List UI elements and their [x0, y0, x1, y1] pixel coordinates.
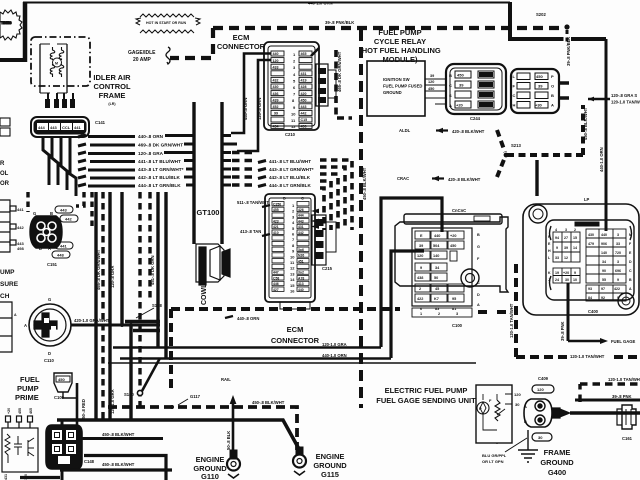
- svg-text:C100: C100: [452, 323, 463, 328]
- svg-text:441-.8 LT BLU/WHT: 441-.8 LT BLU/WHT: [138, 159, 181, 164]
- svg-text:3: 3: [456, 312, 458, 316]
- svg-text:+20: +20: [450, 234, 456, 238]
- short bus bars near bundle: [125, 320, 160, 323]
- IAC pin row: [45, 99, 75, 108]
- svg-text:426: 426: [298, 208, 304, 212]
- svg-text:S140: S140: [124, 392, 134, 397]
- svg-text:140: 140: [433, 254, 439, 258]
- svg-text:R: R: [0, 161, 5, 167]
- svg-text:FUEL GAGE SENDING UNIT: FUEL GAGE SENDING UNIT: [376, 396, 476, 405]
- svg-text:C141: C141: [95, 120, 106, 125]
- svg-text:450-.8 BLK/WHT: 450-.8 BLK/WHT: [252, 400, 285, 405]
- svg-text:C: C: [449, 83, 452, 88]
- svg-text:2: 2: [574, 228, 576, 232]
- svg-text:S202: S202: [536, 12, 546, 17]
- svg-text:3o2: 3o2: [298, 271, 304, 275]
- LP stub wire from relay area: [535, 160, 538, 196]
- dashed corners to C151: [28, 192, 92, 228]
- ECM2 right arrows: [311, 209, 319, 229]
- svg-text:J: J: [548, 278, 550, 282]
- svg-text:9: 9: [617, 278, 619, 282]
- svg-text:455: 455: [273, 208, 279, 212]
- svg-text:442: 442: [301, 112, 307, 116]
- svg-text:SURE: SURE: [0, 281, 19, 288]
- svg-text:C210: C210: [285, 132, 296, 137]
- svg-text:422: 422: [417, 297, 423, 301]
- svg-text:422: 422: [614, 287, 620, 291]
- svg-text:441: 441: [74, 125, 81, 130]
- plug arrow right of C409: [552, 408, 570, 418]
- svg-text:443: 443: [60, 208, 67, 213]
- svg-text:440-1.0 ORN: 440-1.0 ORN: [308, 1, 333, 6]
- svg-text:PRIME: PRIME: [15, 393, 39, 402]
- svg-text:RAIL: RAIL: [221, 377, 231, 382]
- svg-text:10: 10: [573, 278, 577, 282]
- svg-text:431: 431: [298, 225, 304, 229]
- svg-text:24: 24: [555, 278, 559, 282]
- svg-text:498: 498: [17, 246, 24, 251]
- svg-text:452: 452: [273, 105, 279, 109]
- svg-text:CONTROL: CONTROL: [93, 82, 130, 91]
- ECM1 feed wires: [231, 54, 271, 152]
- svg-text:439: 439: [273, 98, 279, 102]
- svg-text:16: 16: [290, 289, 295, 294]
- svg-text:CCL: CCL: [62, 125, 71, 130]
- svg-text:G: G: [477, 245, 480, 249]
- svg-text:FRAME: FRAME: [544, 448, 571, 457]
- svg-text:LP: LP: [584, 197, 590, 202]
- connector C148: [46, 425, 82, 469]
- svg-text:9: 9: [420, 266, 422, 270]
- svg-text:428: 428: [301, 85, 307, 89]
- relay conn2 right stubs: [559, 83, 569, 98]
- svg-text:2: 2: [419, 287, 421, 291]
- svg-text:M: M: [55, 62, 58, 66]
- ECM connector C210 (top): [264, 42, 336, 130]
- svg-text:450: 450: [301, 98, 307, 102]
- svg-text:39: 39: [538, 84, 543, 89]
- svg-text:455: 455: [18, 408, 22, 414]
- svg-text:450-.8 BLK/WHT: 450-.8 BLK/WHT: [102, 462, 135, 467]
- wire 440 main feed top: [0, 58, 25, 62]
- wire from C110: [71, 324, 160, 327]
- svg-text:GAGE/IDLE: GAGE/IDLE: [128, 50, 156, 56]
- svg-text:O: O: [551, 84, 554, 89]
- svg-text:FUEL GAGE: FUEL GAGE: [611, 339, 636, 344]
- wire label band rows: [78, 135, 86, 186]
- long dashed vertical 450 run: [359, 30, 363, 408]
- svg-text:C58: C58: [273, 276, 279, 280]
- svg-text:440-1.0 ORN: 440-1.0 ORN: [322, 353, 347, 358]
- svg-text:15: 15: [290, 283, 295, 288]
- svg-text:442-.8 LT BLU/BLK: 442-.8 LT BLU/BLK: [269, 175, 311, 180]
- svg-text:C400: C400: [588, 309, 599, 314]
- C151 wire pills: [52, 206, 78, 258]
- svg-text:C15: C15: [301, 118, 308, 122]
- svg-text:440-.8 ORN: 440-.8 ORN: [243, 98, 248, 120]
- relay connector 1 C244: [446, 64, 506, 114]
- svg-text:469-.8 DK GRN/WHT: 469-.8 DK GRN/WHT: [138, 143, 183, 148]
- svg-text:CONNECTOR: CONNECTOR: [271, 336, 320, 345]
- svg-text:CRAC: CRAC: [397, 176, 409, 181]
- svg-text:CnCnC: CnCnC: [452, 208, 466, 213]
- partial text left edge (cut labels): [0, 161, 10, 187]
- svg-text:440-.8 ORN: 440-.8 ORN: [138, 134, 164, 139]
- svg-text:P: P: [551, 74, 554, 79]
- wire prime down: [76, 383, 79, 425]
- svg-text:12: 12: [290, 266, 295, 271]
- svg-text:OL: OL: [0, 171, 9, 177]
- svg-text:(HOT FUEL HANDLING: (HOT FUEL HANDLING: [359, 46, 441, 55]
- svg-text:451-.8 DK GRN: 451-.8 DK GRN: [150, 255, 155, 285]
- svg-text:CH: CH: [0, 293, 10, 300]
- dashed wire 39 PNK/BLK top run: [170, 28, 563, 58]
- svg-text:120-1.0 TAN/W: 120-1.0 TAN/W: [611, 100, 640, 105]
- svg-text:N26: N26: [298, 254, 304, 258]
- connector C109 prime: [54, 373, 72, 392]
- fuel sender box: [476, 385, 512, 443]
- vertical harness bundle middle-left: [96, 192, 166, 420]
- svg-text:427: 427: [273, 288, 279, 292]
- svg-text:S213: S213: [511, 143, 521, 148]
- svg-text:MODULE): MODULE): [383, 55, 418, 64]
- svg-text:120-1.0 TAN/WHT: 120-1.0 TAN/WHT: [570, 354, 605, 359]
- svg-text:G400: G400: [548, 468, 566, 477]
- svg-text:IGNITION SW: IGNITION SW: [383, 77, 410, 82]
- connector C161 right edge: [617, 405, 636, 429]
- IAC connector C141: [31, 117, 89, 137]
- svg-text:9: 9: [574, 271, 576, 275]
- svg-text:CONNECTOR: CONNECTOR: [217, 42, 266, 51]
- svg-text:120: 120: [428, 80, 434, 84]
- svg-text:84: 84: [588, 296, 592, 300]
- svg-text:436: 436: [273, 92, 279, 96]
- svg-text:A: A: [46, 462, 49, 467]
- long wire 440-1.0 ORN: [120, 357, 391, 360]
- svg-text:C215: C215: [322, 266, 333, 271]
- dashed 120 TAN/WHT left of LP: [516, 264, 640, 357]
- wire 440 into LP pin: [605, 197, 608, 231]
- svg-text:50: 50: [434, 276, 438, 280]
- svg-text:39: 39: [459, 83, 464, 88]
- svg-text:456: 456: [301, 125, 307, 129]
- svg-text:M: M: [629, 233, 632, 237]
- dashed wire 450 to grounds: [108, 407, 297, 450]
- svg-text:ALDL: ALDL: [399, 128, 411, 133]
- svg-text:465-.8 DK GRN/WHT: 465-.8 DK GRN/WHT: [96, 249, 101, 290]
- connector C100: [395, 214, 508, 306]
- BLU GRA/PPL note: [482, 453, 507, 464]
- svg-text:COWL: COWL: [201, 283, 208, 305]
- svg-text:431: 431: [4, 474, 8, 480]
- svg-text:438: 438: [417, 276, 423, 280]
- fuel pump pressure switch partial text: [0, 269, 19, 300]
- svg-text:33: 33: [555, 256, 559, 260]
- GT100 firewall channel: [196, 100, 220, 244]
- svg-text:440: 440: [298, 288, 304, 292]
- svg-text:479: 479: [588, 242, 594, 246]
- ground wire from C409: [527, 430, 529, 450]
- svg-text:HOT IN START OR RUN: HOT IN START OR RUN: [146, 21, 186, 25]
- svg-text:444: 444: [38, 125, 45, 130]
- oil sw pins: [6, 416, 33, 428]
- svg-text:120-1.0 GRA: 120-1.0 GRA: [322, 342, 347, 347]
- svg-text:OR: OR: [0, 181, 10, 187]
- svg-text:4: 4: [555, 228, 557, 232]
- svg-text:45: 45: [435, 287, 439, 291]
- wire 39 PNK from LP pin 30 down: [567, 283, 570, 341]
- left partial connector box: [0, 200, 16, 252]
- svg-text:A: A: [524, 404, 527, 409]
- svg-text:B: B: [477, 233, 480, 237]
- svg-text:10: 10: [291, 111, 296, 116]
- band dashes heading to ECM2: [232, 153, 256, 186]
- svg-text:K: K: [548, 271, 551, 275]
- svg-text:A: A: [449, 103, 452, 108]
- svg-text:A78: A78: [298, 276, 304, 280]
- svg-text:420-.8 BLK/WHT: 420-.8 BLK/WHT: [448, 177, 481, 182]
- IAC wires to pins: [48, 93, 73, 99]
- left edge small boxes upper: [0, 118, 10, 136]
- svg-text:H: H: [548, 249, 551, 253]
- svg-text:C161: C161: [622, 436, 633, 441]
- svg-text:410: 410: [273, 231, 279, 235]
- svg-text:443: 443: [298, 219, 304, 223]
- svg-text:440: 440: [434, 234, 440, 238]
- svg-text:1: 1: [420, 312, 422, 316]
- svg-text:39-.8 PNK: 39-.8 PNK: [560, 321, 565, 341]
- svg-text:30: 30: [515, 402, 520, 407]
- svg-text:39: 39: [419, 244, 423, 248]
- svg-text:39: 39: [564, 246, 568, 250]
- wire 120 to C100: [381, 198, 442, 358]
- svg-text:465-.8 DK GRN/WHT: 465-.8 DK GRN/WHT: [337, 51, 342, 92]
- svg-text:9: 9: [556, 246, 558, 250]
- frame ground symbol: [518, 450, 538, 462]
- svg-text:PUMP: PUMP: [17, 384, 39, 393]
- arrow up G110 wire: [232, 403, 235, 455]
- svg-text:430: 430: [588, 233, 594, 237]
- svg-text:450: 450: [457, 73, 464, 78]
- svg-text:450: 450: [536, 74, 543, 79]
- svg-text:447: 447: [273, 271, 279, 275]
- svg-text:93: 93: [588, 287, 592, 291]
- svg-text:C148: C148: [84, 459, 95, 464]
- svg-text:3: 3: [565, 228, 567, 232]
- COWL grommet stack: [196, 244, 230, 285]
- svg-text:2: 2: [438, 312, 440, 316]
- svg-text:A: A: [551, 103, 554, 108]
- svg-text:504: 504: [433, 244, 440, 248]
- svg-text:FRAME: FRAME: [99, 91, 126, 100]
- svg-text:120-.8 GRA S: 120-.8 GRA S: [611, 93, 637, 98]
- svg-text:442: 442: [298, 231, 304, 235]
- svg-text:K7: K7: [434, 297, 439, 301]
- relay box: [367, 61, 425, 116]
- svg-text:D: D: [477, 293, 480, 297]
- svg-text:120: 120: [537, 387, 544, 392]
- svg-text:450-.8 BLK/WHT: 450-.8 BLK/WHT: [102, 432, 135, 437]
- svg-text:423: 423: [273, 219, 279, 223]
- svg-text:448: 448: [57, 253, 64, 258]
- svg-text:97: 97: [601, 287, 605, 291]
- svg-text:S: S: [449, 93, 452, 98]
- svg-text:120-1.0 TAN/WHT: 120-1.0 TAN/WHT: [509, 303, 514, 338]
- svg-text:A: A: [24, 323, 27, 328]
- svg-text:+20: +20: [456, 103, 464, 108]
- svg-text:TINES: TINES: [1, 21, 12, 25]
- svg-text:906: 906: [601, 242, 607, 246]
- svg-text:B: B: [50, 211, 53, 216]
- svg-text:A: A: [629, 287, 632, 291]
- svg-text:GT100: GT100: [197, 208, 220, 217]
- svg-text:BLU GR/PPL: BLU GR/PPL: [482, 453, 507, 458]
- svg-text:419: 419: [301, 79, 307, 83]
- svg-text:GROUND: GROUND: [540, 458, 574, 467]
- svg-text:446: 446: [273, 282, 279, 286]
- wires IAC connector down: [43, 137, 76, 196]
- svg-text:14: 14: [290, 277, 295, 282]
- svg-text:C: C: [513, 93, 516, 98]
- svg-text:434: 434: [273, 125, 279, 129]
- svg-text:20 AMP: 20 AMP: [133, 57, 152, 63]
- svg-text:C: C: [629, 269, 632, 273]
- svg-text:3: 3: [617, 233, 619, 237]
- ECM1 pin grid: [291, 52, 296, 129]
- svg-text:39-.8 PNK/BLK: 39-.8 PNK/BLK: [325, 20, 354, 25]
- svg-text:450: 450: [58, 377, 65, 382]
- dashed 465 wire right of ECM1: [336, 50, 352, 118]
- svg-text:FUEL PUMP FUSED: FUEL PUMP FUSED: [383, 84, 422, 89]
- svg-text:99: 99: [274, 112, 278, 116]
- svg-text:3o6: 3o6: [298, 248, 304, 252]
- svg-text:511-.8 TAN/WHT: 511-.8 TAN/WHT: [237, 200, 269, 205]
- svg-text:90: 90: [602, 269, 606, 273]
- relay connector 2: [511, 69, 559, 113]
- svg-text:13: 13: [290, 271, 295, 276]
- svg-text:442-.8 LT BLU/BLK: 442-.8 LT BLU/BLK: [138, 175, 180, 180]
- svg-text:A: A: [14, 313, 17, 317]
- svg-text:ELECTRIC FUEL PUMP: ELECTRIC FUEL PUMP: [385, 386, 468, 395]
- junction S202 dot: [564, 24, 569, 29]
- svg-text:413-.8 TAN: 413-.8 TAN: [240, 229, 261, 234]
- svg-text:27: 27: [564, 236, 568, 240]
- svg-text:720: 720: [615, 251, 621, 255]
- svg-text:696: 696: [615, 269, 621, 273]
- svg-text:GROUND: GROUND: [313, 461, 347, 470]
- svg-text:30: 30: [538, 435, 543, 440]
- nested dashed corners middle: [320, 160, 352, 230]
- svg-text:120-.8 GRA: 120-.8 GRA: [138, 151, 164, 156]
- sender wires right: [570, 411, 640, 414]
- svg-text:E: E: [77, 448, 80, 453]
- svg-text:C110: C110: [44, 358, 54, 363]
- connector C110 round: [29, 304, 71, 346]
- svg-text:120-.8 ORN: 120-.8 ORN: [257, 98, 262, 120]
- bottom left thick wires: [84, 456, 166, 480]
- svg-text:413: 413: [298, 282, 304, 286]
- fusible link HOT IN START OR RUN: [136, 14, 200, 33]
- LP pin blocks: [553, 229, 626, 283]
- svg-text:34: 34: [602, 260, 606, 264]
- svg-text:D: D: [48, 351, 51, 356]
- svg-text:444-.8 LT GRN/BLK: 444-.8 LT GRN/BLK: [138, 183, 181, 188]
- svg-text:450-.8 RED: 450-.8 RED: [81, 399, 86, 421]
- oil pressure switch box: [2, 428, 38, 472]
- svg-text:120-.8 GRA: 120-.8 GRA: [110, 266, 115, 288]
- svg-text:55: 55: [602, 278, 606, 282]
- svg-text:H: H: [513, 103, 516, 108]
- solid wire to G115: [57, 420, 299, 449]
- long wire 120-1.0 GRA: [113, 346, 381, 349]
- svg-text:443: 443: [50, 125, 57, 130]
- svg-text:432: 432: [273, 79, 279, 83]
- thin wire to sender: [108, 362, 476, 364]
- svg-text:92: 92: [601, 296, 605, 300]
- svg-text:+20: +20: [7, 408, 11, 414]
- junction S140: [137, 390, 142, 395]
- svg-text:G: G: [48, 297, 51, 302]
- svg-text:450: 450: [450, 244, 456, 248]
- svg-text:(LR): (LR): [108, 102, 116, 106]
- svg-text:39-.8 PNK/BLK: 39-.8 PNK/BLK: [566, 37, 571, 66]
- svg-text:440: 440: [601, 233, 607, 237]
- svg-text:94: 94: [555, 236, 559, 240]
- svg-text:140: 140: [601, 251, 607, 255]
- svg-text:C151: C151: [47, 262, 58, 267]
- svg-text:440: 440: [273, 52, 279, 56]
- svg-text:33: 33: [616, 242, 620, 246]
- svg-text:C: C: [301, 196, 304, 201]
- svg-text:FUEL: FUEL: [20, 375, 40, 384]
- svg-text:430: 430: [273, 85, 279, 89]
- svg-text:D: D: [39, 246, 42, 251]
- right edge label 120 GRA: [588, 98, 610, 100]
- svg-text:433: 433: [273, 65, 279, 69]
- svg-text:441: 441: [60, 244, 67, 249]
- svg-text:B: B: [524, 419, 527, 424]
- svg-text:14: 14: [573, 246, 577, 250]
- svg-text:443-.8 LT GRN/WHT*: 443-.8 LT GRN/WHT*: [138, 167, 184, 172]
- svg-text:ECM: ECM: [287, 325, 304, 334]
- svg-text:443-.8 LT GRN/WHT*: 443-.8 LT GRN/WHT*: [269, 167, 314, 172]
- svg-text:420-.8 BLK/WHT: 420-.8 BLK/WHT: [452, 129, 485, 134]
- svg-text:450-.8 BLK/WHT: 450-.8 BLK/WHT: [362, 167, 367, 200]
- svg-text:GROUND: GROUND: [383, 90, 402, 95]
- connector C151 round: [30, 216, 62, 248]
- left partial switch box: [0, 302, 12, 352]
- svg-text:IDLER AIR: IDLER AIR: [93, 73, 131, 82]
- svg-text:120: 120: [273, 59, 279, 63]
- svg-text:444-.8 LT GRN/BLK: 444-.8 LT GRN/BLK: [269, 183, 311, 188]
- C100 bottom row: [412, 308, 472, 317]
- svg-text:15: 15: [573, 236, 577, 240]
- splice starburst HOT AT ALL TIMES: [0, 10, 22, 40]
- svg-text:431: 431: [301, 72, 307, 76]
- svg-text:B: B: [551, 93, 554, 98]
- svg-text:465: 465: [29, 408, 33, 414]
- svg-text:120-1.0 GRA: 120-1.0 GRA: [110, 389, 115, 414]
- svg-text:9: 9: [617, 296, 619, 300]
- svg-text:UMP: UMP: [0, 269, 15, 276]
- dashed 440 ORN run below ECM2: [171, 309, 400, 388]
- IAC motor box: [31, 37, 90, 93]
- svg-text:FUEL PUMP: FUEL PUMP: [378, 28, 421, 37]
- svg-text:440-.8 ORN: 440-.8 ORN: [237, 316, 259, 321]
- svg-text:A: A: [48, 246, 51, 251]
- svg-text:G117: G117: [190, 394, 201, 399]
- svg-text:30: 30: [565, 278, 569, 282]
